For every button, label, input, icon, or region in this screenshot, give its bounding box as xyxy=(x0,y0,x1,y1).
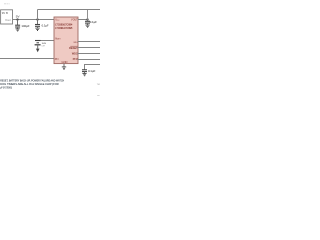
svg-text:V OUT: V OUT xyxy=(71,20,78,22)
node junction 3 xyxy=(86,18,88,20)
regulator block (left box) xyxy=(1,10,13,24)
svg-text:PFI: PFI xyxy=(55,58,59,61)
svg-text:LTC691/LTC695: LTC691/LTC695 xyxy=(55,26,72,30)
IC U1 supervisor box xyxy=(54,17,78,64)
svg-text:WDI: WDI xyxy=(74,42,78,44)
capacitor C4 0.1uF xyxy=(82,70,87,74)
svg-text:µP SYSTEMS): µP SYSTEMS) xyxy=(0,86,12,90)
svg-text:WDO: WDO xyxy=(72,53,78,56)
svg-text:0.1µF: 0.1µF xyxy=(90,20,97,24)
svg-text:100µF: 100µF xyxy=(22,24,30,28)
wire top rail (VOUT backup rail) xyxy=(38,9,101,11)
wire VCC rail xyxy=(13,19,55,21)
ground (IC GND pin) xyxy=(62,64,66,70)
svg-text:5V: 5V xyxy=(16,14,20,18)
wire to C4 xyxy=(85,65,101,70)
node junction 1 xyxy=(16,18,18,20)
svg-text:0.1µF: 0.1µF xyxy=(42,24,49,28)
node junction 2 xyxy=(36,18,38,20)
svg-text:3.6V: 3.6V xyxy=(42,43,47,45)
wire PFO xyxy=(78,59,101,61)
svg-text:LITH: LITH xyxy=(42,46,45,48)
svg-text:PFO: PFO xyxy=(73,58,78,61)
wire VOUT pin xyxy=(78,19,88,21)
wire WDI xyxy=(78,41,101,43)
wire WDO xyxy=(78,53,101,55)
wire riser to top rail xyxy=(37,10,39,20)
corner remnant xyxy=(97,95,99,96)
header speck remnants xyxy=(4,3,9,4)
svg-text:0.1µF: 0.1µF xyxy=(88,69,95,73)
capacitor C3 0.1uF xyxy=(85,10,90,25)
capacitor C1 100uF xyxy=(15,20,20,29)
wire PFI xyxy=(0,58,54,60)
svg-text:T01: T01 xyxy=(97,84,100,86)
ground (C4) xyxy=(82,74,86,76)
ground (C2) xyxy=(35,28,39,30)
svg-text:GND: GND xyxy=(62,60,68,64)
ground (C3) xyxy=(85,25,89,27)
capacitor C2 0.1uF xyxy=(35,20,40,28)
battery 3.6V lithium xyxy=(35,41,54,53)
ground (C1) xyxy=(16,29,20,31)
wire RESET xyxy=(78,47,101,49)
svg-text:LTC690/LTC694: LTC690/LTC694 xyxy=(55,23,72,27)
svg-text:9V B: 9V B xyxy=(2,11,8,15)
